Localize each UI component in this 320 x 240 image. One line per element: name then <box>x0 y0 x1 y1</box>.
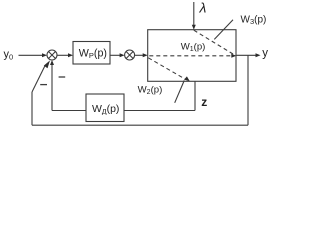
arrowhead into block WP <box>68 53 73 57</box>
minus sign Wd feedback <box>59 76 66 78</box>
arrowhead feedback into S1 <box>44 60 50 68</box>
summing junction S1 <box>47 50 57 60</box>
summer S1 cross <box>49 52 56 59</box>
wire S1 to block WP <box>57 54 69 56</box>
svg-text:y: y <box>262 47 268 59</box>
arrowhead output y <box>256 53 261 57</box>
wire Wd feedback up into S1 <box>51 65 53 111</box>
wire y0 to summer S1 <box>19 54 44 56</box>
arrowhead into summer S2 <box>120 53 125 57</box>
plant box W1 <box>148 30 236 82</box>
svg-text:Wд(p): Wд(p) <box>92 103 119 116</box>
wire lambda input <box>193 2 195 26</box>
minus sign outer loop <box>40 84 47 86</box>
dashed channel W2 diagonal <box>148 58 185 79</box>
summing junction S2 <box>125 50 135 60</box>
summer S2 cross <box>126 52 133 59</box>
wire WP to summer S2 <box>110 54 120 56</box>
svg-text:λ: λ <box>199 0 207 16</box>
arrowhead lambda into box <box>192 25 196 30</box>
wire feedback diagonal into S1 <box>32 65 45 92</box>
wire feedback left vertical <box>31 92 33 125</box>
label W3 leader line <box>214 20 233 40</box>
arrowhead dashed to output <box>231 54 236 58</box>
svg-text:W3(p): W3(p) <box>241 15 267 27</box>
wire z from box bottom <box>194 81 196 110</box>
svg-text:W1(p): W1(p) <box>181 41 206 53</box>
wire feedback down from output <box>247 55 249 125</box>
wire S2 to plant box <box>135 54 144 56</box>
wire z horizontal to block Wd <box>124 110 195 112</box>
wire output y <box>236 54 256 56</box>
dashed channel W3 diagonal <box>194 30 233 54</box>
arrowhead into plant box <box>143 53 148 57</box>
arrowhead Wd feedback into S1 <box>50 60 54 65</box>
wire feedback bottom <box>32 124 248 126</box>
svg-text:W2(p): W2(p) <box>138 84 163 96</box>
block WP rectangle <box>73 42 110 65</box>
label W2 leader line <box>175 80 185 102</box>
arrowhead into summer S1 <box>42 53 47 57</box>
block Wd rectangle <box>86 94 124 122</box>
arrowhead W2 channel to z <box>184 76 190 81</box>
svg-text:z: z <box>201 95 207 109</box>
dashed channel W1 horizontal <box>149 55 231 57</box>
wire Wd output left <box>52 110 86 112</box>
